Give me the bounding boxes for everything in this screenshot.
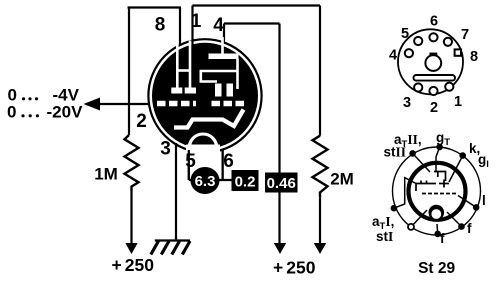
svg-text:+250: +250 bbox=[273, 258, 316, 278]
svg-text:2M: 2M bbox=[330, 170, 354, 189]
svg-text:1: 1 bbox=[191, 11, 202, 32]
svg-text:stII: stII bbox=[384, 145, 407, 160]
svg-text:1M: 1M bbox=[94, 165, 118, 184]
svg-text:3: 3 bbox=[160, 139, 171, 160]
svg-text:8: 8 bbox=[470, 49, 478, 65]
svg-text:8: 8 bbox=[155, 15, 166, 36]
svg-text:-20V: -20V bbox=[47, 103, 84, 122]
svg-text:f: f bbox=[440, 231, 445, 246]
svg-text:4: 4 bbox=[213, 15, 224, 36]
svg-text:St 29: St 29 bbox=[418, 260, 455, 277]
svg-text:6: 6 bbox=[223, 151, 234, 172]
svg-text:2: 2 bbox=[430, 100, 438, 116]
svg-text:4: 4 bbox=[389, 48, 397, 64]
svg-text:5: 5 bbox=[401, 26, 409, 42]
svg-text:3: 3 bbox=[403, 95, 411, 111]
svg-text:0: 0 bbox=[7, 103, 16, 122]
svg-text:f: f bbox=[467, 221, 472, 236]
svg-text:l: l bbox=[482, 193, 486, 208]
svg-text:6.3: 6.3 bbox=[195, 173, 216, 190]
svg-text:6: 6 bbox=[430, 14, 438, 30]
svg-text:5: 5 bbox=[185, 151, 196, 172]
svg-text:7: 7 bbox=[461, 27, 469, 43]
svg-text:1: 1 bbox=[454, 94, 462, 110]
svg-text:stI: stI bbox=[376, 229, 393, 244]
svg-text:+250: +250 bbox=[112, 255, 155, 275]
svg-text:0.2: 0.2 bbox=[235, 174, 256, 191]
svg-text:0.46: 0.46 bbox=[267, 175, 296, 192]
svg-text:2: 2 bbox=[136, 111, 147, 132]
